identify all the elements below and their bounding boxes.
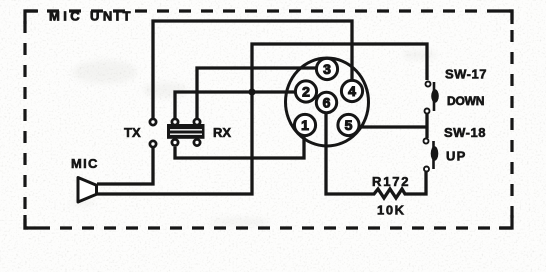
svg-text:MIC UNIT: MIC UNIT [49,9,134,24]
svg-text:MIC: MIC [71,156,99,171]
svg-text:10K: 10K [377,203,406,218]
svg-text:RX: RX [213,125,231,140]
svg-text:6: 6 [323,95,331,111]
svg-text:5: 5 [345,117,353,133]
svg-text:DOWN: DOWN [447,94,484,108]
svg-text:4: 4 [348,83,356,99]
svg-text:1: 1 [301,117,309,133]
svg-text:SW-17: SW-17 [445,67,487,82]
svg-text:TX: TX [124,125,141,140]
svg-text:3: 3 [323,61,331,77]
svg-text:R172: R172 [372,174,410,189]
svg-text:2: 2 [302,84,310,100]
svg-text:UP: UP [446,149,466,164]
svg-text:SW-18: SW-18 [444,125,486,140]
